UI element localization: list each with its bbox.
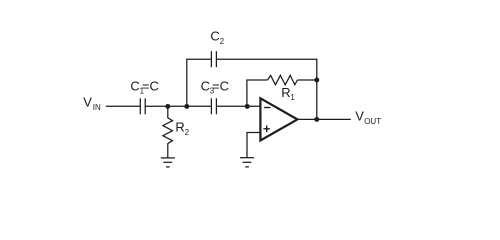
label C1=C: [130, 78, 158, 95]
capacitor C3: [211, 98, 216, 114]
wire R2 to ground: [167, 146, 169, 158]
wire C3 to op-amp inverting input: [216, 105, 260, 107]
label R1: [281, 85, 295, 102]
wire node B to C3: [187, 105, 212, 107]
ground under R2: [161, 158, 175, 167]
op-amp minus sign: [264, 107, 270, 109]
op-amp plus sign: [263, 126, 270, 133]
label R2: [175, 120, 189, 137]
wire op-amp output: [296, 118, 351, 120]
node VIN label: [83, 95, 101, 113]
svg-text:IN: IN: [93, 103, 101, 112]
wire C2 to feedback node and feedback right vertical: [216, 59, 316, 119]
svg-text:=C: =C: [142, 78, 159, 93]
label C3=C: [201, 78, 229, 95]
svg-text:2: 2: [220, 37, 225, 46]
svg-text:C: C: [201, 78, 210, 93]
node VOUT label: [355, 109, 381, 127]
wire node B up to feedback loop and top loop left to C2: [187, 59, 212, 106]
op-amp U1 triangle: [260, 98, 297, 140]
ground at op-amp plus input: [240, 158, 254, 167]
svg-text:=C: =C: [212, 78, 229, 93]
svg-text:C: C: [210, 28, 219, 43]
svg-text:OUT: OUT: [364, 117, 381, 126]
wire C1 to node A: [145, 105, 168, 107]
node B junction dot: [184, 104, 189, 109]
wire node A to node B: [168, 105, 187, 107]
node D junction dot on feedback: [314, 78, 319, 83]
node A junction dot: [165, 104, 170, 109]
svg-text:R: R: [281, 85, 290, 100]
node VOUT junction dot: [314, 117, 319, 122]
wire VIN to C1: [106, 105, 141, 107]
label C2: [210, 28, 224, 45]
resistor R1 zigzag: [268, 75, 298, 84]
capacitor C1: [140, 98, 145, 114]
wire R1 right to feedback node: [297, 79, 316, 81]
svg-text:V: V: [355, 109, 364, 124]
resistor R2 vertical with zigzag: [163, 106, 173, 146]
svg-text:C: C: [130, 78, 139, 93]
svg-text:1: 1: [290, 93, 295, 102]
wire op-amp noninverting input down to ground: [247, 133, 260, 158]
svg-text:2: 2: [185, 128, 190, 137]
svg-text:R: R: [175, 120, 184, 135]
capacitor C2: [211, 51, 216, 67]
svg-text:V: V: [83, 95, 92, 110]
wire node C up to R1 left: [247, 80, 268, 106]
node C junction dot: [245, 104, 250, 109]
